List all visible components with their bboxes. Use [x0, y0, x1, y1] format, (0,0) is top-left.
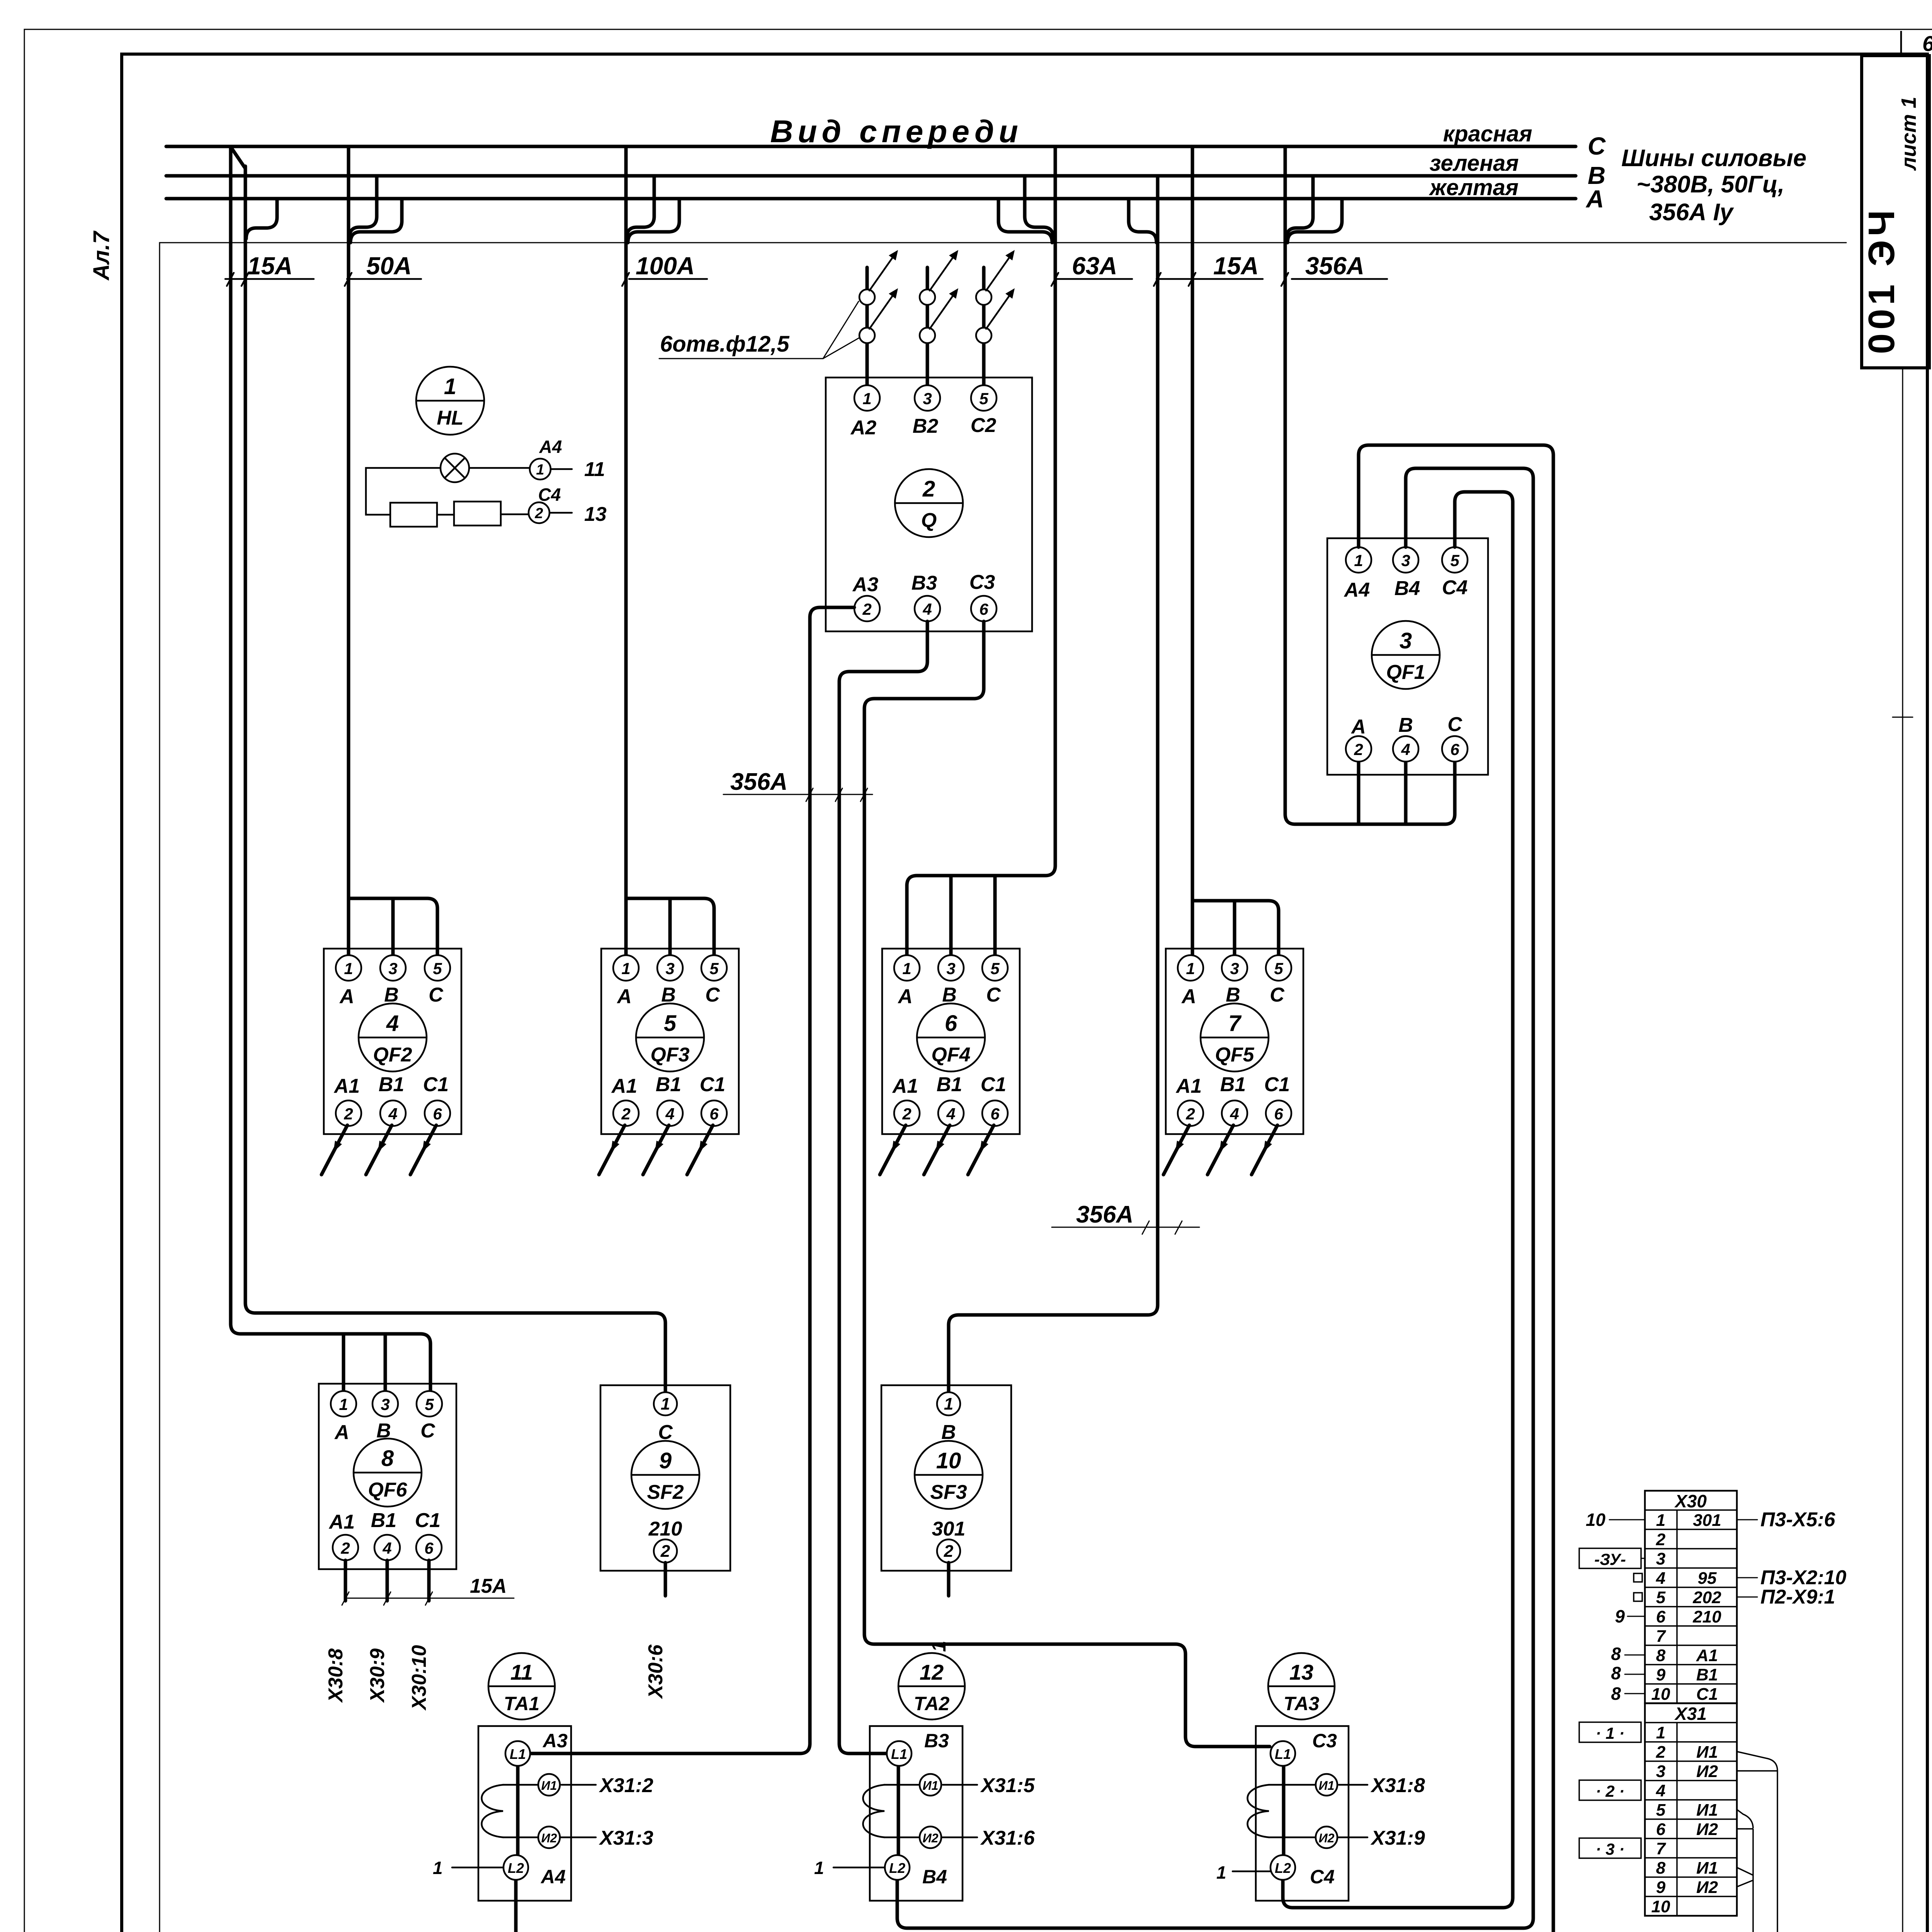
svg-text:3: 3 [1656, 1762, 1665, 1781]
wire feeder 50A phase C [349, 146, 437, 955]
svg-text:А2: А2 [850, 417, 877, 439]
wire feeder 100A phase B tap [627, 176, 654, 238]
wire QF6 output stubs [345, 1560, 429, 1601]
svg-text:1: 1 [1216, 1862, 1226, 1883]
wire feeder 15A no.2 phase C to QF5 [1192, 146, 1279, 955]
svg-text:Х31:8: Х31:8 [1370, 1774, 1425, 1797]
wire QF1 t3 B4 loop to TA2 L2 [897, 468, 1533, 1928]
label 50A feeder [345, 252, 421, 286]
svg-text:В4: В4 [922, 1866, 947, 1888]
svg-text:15А: 15А [247, 252, 293, 280]
svg-text:С: С [1270, 984, 1285, 1006]
svg-text:5: 5 [1450, 551, 1459, 570]
svg-text:QF2: QF2 [373, 1044, 412, 1066]
svg-text:С1: С1 [423, 1073, 449, 1096]
svg-text:А4: А4 [1344, 579, 1370, 601]
svg-text:А: А [334, 1421, 349, 1444]
svg-text:10: 10 [1586, 1510, 1606, 1530]
svg-text:А: А [1585, 185, 1604, 213]
svg-text:В1: В1 [656, 1073, 681, 1096]
svg-text:L1: L1 [1275, 1746, 1291, 1762]
breaker QF4 (6) [880, 949, 1020, 1175]
document code box rotated (001 ЭЧ / лист 1) [1861, 56, 1929, 368]
svg-text:1: 1 [902, 959, 911, 978]
svg-text:2: 2 [1656, 1743, 1666, 1762]
svg-text:15А: 15А [470, 1575, 507, 1597]
svg-text:В1: В1 [371, 1509, 396, 1532]
svg-text:1: 1 [814, 1858, 824, 1878]
svg-text:HL: HL [437, 407, 463, 429]
svg-text:И1: И1 [1696, 1743, 1718, 1762]
svg-text:1: 1 [339, 1395, 348, 1413]
svg-text:6: 6 [424, 1539, 434, 1557]
svg-text:Х30:10: Х30:10 [408, 1645, 430, 1711]
CT TA3 (13) [1216, 1653, 1425, 1901]
svg-text:И2: И2 [1319, 1831, 1335, 1845]
svg-text:В: В [1398, 714, 1413, 736]
svg-text:4: 4 [1230, 1105, 1239, 1123]
svg-text:Х30:6: Х30:6 [645, 1644, 667, 1699]
svg-text:SF3: SF3 [930, 1481, 967, 1503]
wire feeder 15A no.2 phase B line to SF3 [949, 176, 1158, 1391]
svg-text:2: 2 [660, 1542, 670, 1561]
svg-text:2: 2 [621, 1105, 630, 1123]
svg-text:10: 10 [936, 1448, 961, 1473]
svg-text:· 3 ·: · 3 · [1596, 1840, 1625, 1858]
wire feeder 15A no.1 phase C [231, 146, 430, 1391]
svg-text:красная: красная [1443, 121, 1532, 146]
svg-text:L2: L2 [508, 1860, 524, 1876]
CT TA1 (11) [433, 1653, 653, 1901]
svg-text:15А: 15А [1213, 252, 1259, 280]
svg-text:6: 6 [945, 1011, 957, 1036]
wire QF6 branch drops [344, 1334, 385, 1391]
svg-text:63А: 63А [1072, 252, 1117, 280]
svg-text:А: А [1350, 716, 1366, 738]
svg-text:2: 2 [944, 1542, 954, 1561]
svg-text:3: 3 [1230, 959, 1239, 978]
X31 jumper rows 2-3 and down-wire [1737, 1752, 1777, 1932]
svg-text:9: 9 [1656, 1665, 1666, 1684]
svg-text:9: 9 [659, 1448, 672, 1473]
svg-text:13: 13 [1289, 1660, 1313, 1684]
svg-text:А: А [897, 985, 913, 1008]
svg-text:1: 1 [621, 959, 630, 978]
svg-text:Шины силовые: Шины силовые [1621, 145, 1806, 172]
svg-text:Х31:9: Х31:9 [1370, 1827, 1425, 1849]
svg-text:301: 301 [1693, 1511, 1721, 1530]
bus A (желтая) [166, 197, 1576, 201]
svg-text:4: 4 [388, 1105, 397, 1123]
wire feeder 100A phase C [626, 146, 714, 955]
svg-text:2: 2 [344, 1105, 353, 1123]
svg-text:И2: И2 [541, 1831, 557, 1845]
svg-text:С4: С4 [1442, 577, 1468, 599]
svg-text:С: С [1447, 713, 1463, 736]
lamp circuit HL (1) [366, 367, 607, 527]
svg-text:В1: В1 [379, 1073, 404, 1096]
bus labels [1429, 121, 1532, 200]
svg-text:1: 1 [862, 389, 871, 408]
wire QF1 t5 C4 loop to TA3 L2 [1283, 492, 1513, 1908]
svg-text:9: 9 [1615, 1606, 1625, 1626]
bus B (зеленая) [166, 174, 1576, 178]
svg-text:L2: L2 [1275, 1860, 1291, 1876]
svg-text:4: 4 [1656, 1569, 1665, 1588]
disconnector arrows column B2 [920, 250, 958, 343]
svg-text:6отв.ф12,5: 6отв.ф12,5 [660, 332, 789, 357]
svg-text:5: 5 [433, 959, 442, 978]
X31 jumper rows 8-9 [1737, 1867, 1753, 1887]
svg-text:202: 202 [1692, 1588, 1721, 1607]
svg-text:1: 1 [944, 1395, 953, 1413]
svg-text:301: 301 [932, 1518, 966, 1540]
svg-text:6: 6 [1656, 1607, 1666, 1626]
svg-text:А1: А1 [1696, 1646, 1718, 1665]
svg-text:С1: С1 [415, 1509, 440, 1532]
svg-text:L2: L2 [889, 1860, 905, 1876]
svg-text:лист 1: лист 1 [1897, 97, 1920, 171]
svg-text:А4: А4 [539, 437, 562, 457]
svg-text:Q: Q [921, 509, 937, 532]
leader 6отв.ф12,5 [659, 301, 859, 359]
disconnector arrows column C2 [976, 250, 1015, 343]
svg-text:3: 3 [665, 959, 674, 978]
wire QF1 t1 A4 loop to TA1 L2 [516, 445, 1553, 1932]
svg-text:И2: И2 [1696, 1762, 1718, 1781]
svg-text:С1: С1 [1264, 1073, 1290, 1096]
svg-text:Х30: Х30 [1674, 1491, 1707, 1511]
svg-text:5: 5 [1656, 1801, 1666, 1820]
svg-text:QF4: QF4 [931, 1044, 970, 1066]
svg-text:6: 6 [1922, 31, 1932, 56]
svg-text:зеленая: зеленая [1430, 151, 1519, 176]
sheet number box top right [1901, 31, 1932, 56]
svg-text:А4: А4 [540, 1866, 566, 1888]
svg-text:2: 2 [902, 1105, 911, 1123]
svg-text:И1: И1 [1696, 1859, 1718, 1878]
svg-text:3: 3 [381, 1395, 389, 1413]
svg-text:50А: 50А [366, 252, 412, 280]
svg-text:3: 3 [1656, 1549, 1665, 1568]
svg-text:356А: 356А [1076, 1201, 1133, 1228]
svg-text:5: 5 [990, 959, 1000, 978]
svg-text:1: 1 [444, 374, 456, 399]
svg-text:С: С [1588, 132, 1606, 160]
svg-text:Х30:8: Х30:8 [325, 1648, 347, 1703]
svg-text:9: 9 [1656, 1878, 1666, 1897]
svg-text:1: 1 [1354, 551, 1363, 570]
svg-text:8: 8 [1656, 1646, 1666, 1665]
svg-text:И1: И1 [541, 1779, 557, 1793]
svg-text:4: 4 [386, 1011, 399, 1036]
svg-text:4: 4 [946, 1105, 955, 1123]
svg-text:QF3: QF3 [650, 1044, 689, 1066]
svg-text:6: 6 [1274, 1105, 1283, 1123]
svg-text:желтая: желтая [1429, 175, 1519, 200]
wire A3 from Q to TA1 L1 [531, 607, 854, 1753]
svg-text:L1: L1 [510, 1746, 526, 1762]
label 100A feeder [622, 252, 707, 286]
svg-text:4: 4 [665, 1105, 674, 1123]
svg-text:210: 210 [1692, 1607, 1721, 1626]
svg-text:И1: И1 [1319, 1779, 1335, 1793]
svg-text:5: 5 [1274, 959, 1283, 978]
wire feeder 356A phase B tap [1286, 176, 1313, 239]
wire B3 from Q to TA2 L1 [839, 621, 927, 1753]
svg-text:1: 1 [1656, 1723, 1665, 1742]
breaker SF2 (9) [600, 1385, 730, 1571]
svg-text:С1: С1 [1696, 1685, 1718, 1704]
svg-text:3: 3 [388, 959, 397, 978]
svg-text:5: 5 [664, 1011, 677, 1036]
wire C3 from Q to TA3 L1 [864, 621, 1270, 1747]
svg-text:8: 8 [381, 1446, 394, 1471]
svg-text:С1: С1 [700, 1073, 725, 1096]
svg-text:Х31:3: Х31:3 [599, 1827, 653, 1849]
svg-text:7: 7 [1656, 1839, 1667, 1858]
svg-text:6: 6 [990, 1105, 1000, 1123]
wire feeder 63A phase B tap [1025, 176, 1053, 238]
svg-text:6: 6 [433, 1105, 442, 1123]
wire feeder 15A no.1 phase A tap [246, 199, 277, 239]
label 356A on 15A pair lower [1052, 1201, 1199, 1234]
svg-text:356А: 356А [1305, 252, 1364, 280]
wire feeder 50A phase B tap [349, 176, 377, 238]
svg-text:QF5: QF5 [1215, 1044, 1254, 1066]
svg-text:6: 6 [979, 600, 988, 618]
svg-text:Х30:9: Х30:9 [366, 1648, 389, 1703]
svg-text:ТА3: ТА3 [1284, 1693, 1320, 1714]
svg-text:И2: И2 [1696, 1820, 1718, 1839]
svg-text:Х31:6: Х31:6 [980, 1827, 1035, 1849]
wire feeder 356A phase A tap [1287, 199, 1342, 243]
note Шины силовые ~380В 50Гц 356А [1621, 145, 1806, 226]
svg-text:5: 5 [1656, 1588, 1666, 1607]
svg-text:И1: И1 [923, 1779, 939, 1793]
svg-text:SF2: SF2 [647, 1481, 684, 1503]
panel outline [160, 243, 1846, 1932]
svg-text:В1: В1 [937, 1073, 962, 1096]
X31 jumper rows 5-6 and down-wire to ground [1737, 1810, 1753, 1932]
svg-text:И2: И2 [923, 1831, 939, 1845]
svg-text:А1: А1 [892, 1075, 918, 1097]
svg-text:Ал.7: Ал.7 [89, 230, 114, 281]
inner right vertical line [1893, 368, 1913, 1932]
svg-text:3: 3 [1400, 628, 1412, 653]
svg-text:210: 210 [648, 1518, 682, 1540]
svg-text:А1: А1 [611, 1075, 637, 1097]
svg-text:· 2 ·: · 2 · [1596, 1782, 1625, 1800]
svg-text:Х31:5: Х31:5 [980, 1774, 1035, 1797]
svg-text:С: С [705, 984, 720, 1006]
label 356A feeder [1281, 252, 1387, 286]
terminal block X30 [1579, 1491, 1846, 1704]
svg-text:А3: А3 [852, 573, 879, 596]
breaker SF3 (10) [881, 1385, 1011, 1571]
svg-text:Х31:2: Х31:2 [599, 1774, 653, 1797]
svg-text:2: 2 [922, 476, 935, 502]
svg-text:12: 12 [920, 1660, 944, 1684]
svg-text:П2-Х9:1: П2-Х9:1 [1760, 1586, 1835, 1608]
wire SF2 output stub [664, 1563, 667, 1596]
svg-text:В3: В3 [912, 572, 937, 594]
svg-text:8: 8 [1611, 1684, 1621, 1704]
svg-text:4: 4 [1656, 1781, 1665, 1800]
svg-text:7: 7 [1656, 1627, 1667, 1646]
terminal block X31 [1579, 1703, 1737, 1916]
svg-text:100А: 100А [636, 252, 695, 280]
svg-text:1: 1 [536, 462, 544, 478]
svg-text:2: 2 [862, 600, 871, 618]
svg-text:001 ЭЧ: 001 ЭЧ [1861, 206, 1902, 354]
wire feeder 356A phase C down to QF1 bottom loop [1285, 146, 1455, 824]
wire feeder 100A phase A tap [628, 199, 679, 243]
label 15A feeder 2 [1154, 252, 1263, 286]
svg-text:С4: С4 [1310, 1866, 1335, 1888]
svg-text:В3: В3 [924, 1730, 949, 1752]
svg-text:4: 4 [922, 600, 932, 618]
svg-text:С1: С1 [981, 1073, 1006, 1096]
CT TA2 (12) [814, 1653, 1035, 1901]
svg-text:~380В, 50Гц,: ~380В, 50Гц, [1636, 171, 1784, 198]
svg-text:С: С [429, 984, 444, 1006]
X30 right leads [1737, 1519, 1757, 1520]
label 63A feeder [1051, 252, 1132, 286]
svg-text:И2: И2 [1696, 1878, 1718, 1897]
svg-text:2: 2 [1656, 1530, 1666, 1549]
svg-text:8: 8 [1656, 1859, 1666, 1878]
svg-text:А: А [616, 985, 632, 1008]
svg-text:8: 8 [1611, 1644, 1621, 1664]
disconnector stubs above switch Q [867, 267, 984, 385]
svg-text:10: 10 [1651, 1685, 1670, 1704]
svg-text:В4: В4 [1395, 577, 1420, 600]
svg-text:QF1: QF1 [1386, 661, 1425, 684]
svg-text:А1: А1 [328, 1511, 355, 1533]
svg-text:С4: С4 [538, 485, 561, 505]
svg-text:L1: L1 [891, 1746, 907, 1762]
wire SF3 output stub [947, 1563, 951, 1596]
svg-text:95: 95 [1698, 1569, 1717, 1588]
svg-text:2: 2 [534, 505, 543, 522]
svg-text:С: С [420, 1420, 435, 1442]
bus C (красная) [166, 145, 1576, 148]
disconnector arrows column A2 [859, 250, 898, 343]
svg-text:4: 4 [382, 1539, 391, 1557]
svg-text:В2: В2 [913, 415, 939, 437]
label 15A feeder 1 [225, 252, 314, 286]
svg-text:6: 6 [1656, 1820, 1666, 1839]
svg-text:1: 1 [344, 959, 353, 978]
wire feeder 63A phase A tap [998, 199, 1052, 243]
wire feeder 15A no.2 phase A tap [1129, 199, 1156, 243]
svg-text:-ЗУ-: -ЗУ- [1594, 1550, 1626, 1568]
svg-text:6: 6 [1450, 740, 1459, 759]
breaker QF1 (3) box [1327, 538, 1488, 775]
svg-text:1: 1 [433, 1858, 443, 1878]
svg-text:С: С [986, 984, 1001, 1006]
svg-text:4: 4 [1401, 740, 1410, 759]
svg-text:2: 2 [340, 1539, 350, 1557]
svg-text:Вид спереди: Вид спереди [770, 114, 1023, 149]
svg-text:А1: А1 [333, 1075, 360, 1097]
svg-text:3: 3 [923, 389, 932, 408]
svg-text:8: 8 [1611, 1663, 1621, 1683]
svg-text:П3-Х5:6: П3-Х5:6 [1760, 1509, 1836, 1531]
svg-text:2: 2 [1185, 1105, 1195, 1123]
svg-text:1: 1 [1186, 959, 1195, 978]
wire feeder 63A phase C to QF4 [907, 146, 1055, 955]
svg-text:10: 10 [1651, 1897, 1670, 1916]
switch Q (2) box [826, 378, 1032, 631]
svg-text:А: А [1181, 985, 1196, 1008]
svg-text:11: 11 [510, 1660, 533, 1684]
breaker QF6 (8) [319, 1384, 456, 1569]
svg-text:356А Iу: 356А Iу [1649, 199, 1735, 226]
breaker QF2 (4) [321, 949, 461, 1175]
wire feeder 15A no.1 jog and phase B line to SF2 [231, 148, 665, 1391]
svg-text:5: 5 [709, 959, 719, 978]
svg-text:ТА1: ТА1 [504, 1693, 540, 1714]
svg-text:5: 5 [425, 1395, 434, 1413]
svg-text:С2: С2 [971, 414, 997, 437]
svg-text:В1: В1 [1220, 1073, 1246, 1096]
svg-text:С3: С3 [969, 571, 995, 594]
svg-text:13: 13 [584, 503, 607, 526]
svg-text:А1: А1 [1175, 1075, 1202, 1097]
svg-text:5: 5 [979, 389, 988, 408]
label 356A on A3 B3 C3 wires [723, 769, 872, 801]
svg-text:QF6: QF6 [368, 1479, 407, 1501]
label 15A on QF6 outputs [342, 1575, 514, 1605]
breaker QF5 (7) [1163, 949, 1303, 1175]
svg-text:1: 1 [661, 1395, 670, 1413]
svg-text:11: 11 [584, 458, 605, 481]
svg-text:Х31: Х31 [1674, 1704, 1707, 1724]
svg-text:1: 1 [1656, 1511, 1665, 1530]
svg-text:3: 3 [1401, 551, 1410, 570]
svg-text:6: 6 [709, 1105, 719, 1123]
svg-text:356А: 356А [730, 769, 787, 795]
svg-text:7: 7 [1228, 1011, 1242, 1036]
breaker QF3 (5) [599, 949, 739, 1175]
svg-text:3: 3 [946, 959, 955, 978]
svg-text:· 1 ·: · 1 · [1596, 1724, 1625, 1742]
svg-text:В1: В1 [1696, 1665, 1718, 1684]
svg-text:А3: А3 [542, 1730, 568, 1752]
svg-text:2: 2 [1354, 740, 1363, 759]
svg-text:И1: И1 [1696, 1801, 1718, 1820]
svg-text:А: А [339, 985, 354, 1008]
X31 left link boxes [1579, 1722, 1641, 1742]
svg-text:ТА2: ТА2 [914, 1693, 950, 1714]
wire feeder 50A phase A tap [350, 199, 402, 243]
svg-text:С3: С3 [1312, 1730, 1337, 1752]
